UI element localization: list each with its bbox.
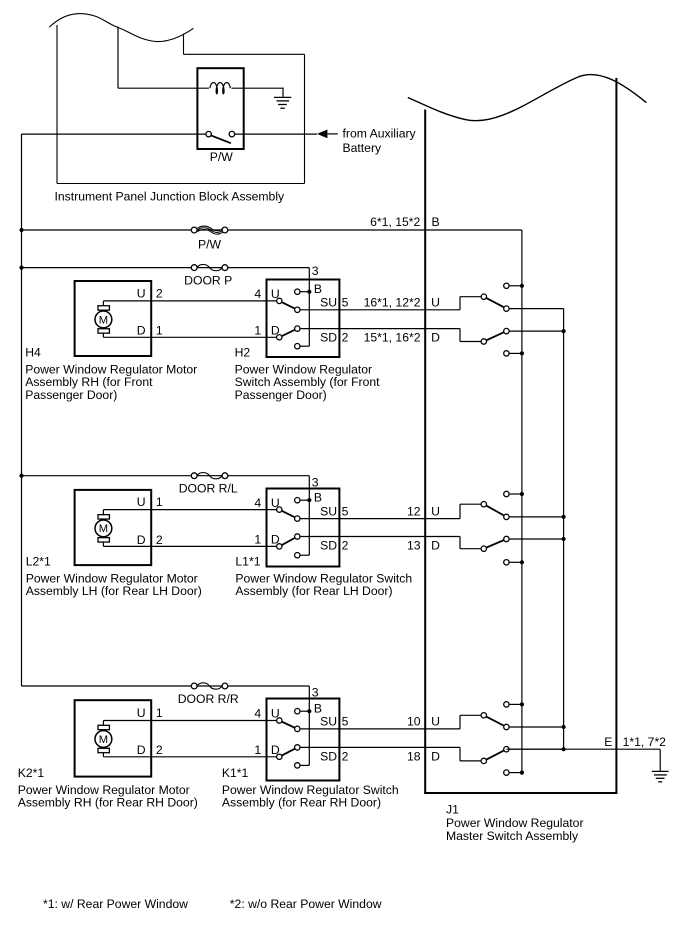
svg-text:U: U <box>271 287 280 301</box>
svg-text:U: U <box>137 495 146 509</box>
svg-text:M: M <box>99 523 108 535</box>
svg-text:1: 1 <box>254 324 261 338</box>
svg-text:D: D <box>271 533 280 547</box>
svg-text:D: D <box>271 743 280 757</box>
svg-text:6*1, 15*2: 6*1, 15*2 <box>370 215 420 229</box>
svg-text:D: D <box>431 331 440 345</box>
svg-text:D: D <box>137 324 146 338</box>
svg-text:5: 5 <box>342 296 349 310</box>
svg-text:Master Switch Assembly: Master Switch Assembly <box>446 829 579 843</box>
svg-text:4: 4 <box>254 287 261 301</box>
svg-text:2: 2 <box>342 539 349 553</box>
svg-text:1*1, 7*2: 1*1, 7*2 <box>623 735 667 749</box>
svg-text:K2*1: K2*1 <box>18 766 45 780</box>
svg-text:H2: H2 <box>235 346 251 360</box>
svg-text:U: U <box>271 707 280 721</box>
svg-text:H4: H4 <box>25 346 41 360</box>
svg-text:U: U <box>137 706 146 720</box>
svg-text:10: 10 <box>407 715 421 729</box>
svg-text:U: U <box>431 296 440 310</box>
svg-text:U: U <box>431 504 440 518</box>
svg-text:3: 3 <box>312 476 319 490</box>
svg-text:*1: w/ Rear Power Window: *1: w/ Rear Power Window <box>43 897 188 911</box>
svg-text:13: 13 <box>407 539 421 553</box>
svg-text:2: 2 <box>342 331 349 345</box>
svg-text:Passenger Door): Passenger Door) <box>25 388 117 402</box>
svg-text:from Auxiliary: from Auxiliary <box>343 126 417 140</box>
svg-text:U: U <box>271 496 280 510</box>
svg-text:B: B <box>314 491 322 505</box>
svg-text:DOOR R/L: DOOR R/L <box>179 482 238 496</box>
svg-text:1: 1 <box>254 743 261 757</box>
svg-text:2: 2 <box>342 750 349 764</box>
svg-text:M: M <box>99 314 108 326</box>
svg-text:DOOR R/R: DOOR R/R <box>178 692 239 706</box>
svg-text:SU: SU <box>320 715 337 729</box>
svg-text:U: U <box>137 287 146 301</box>
svg-text:SU: SU <box>320 504 337 518</box>
svg-text:D: D <box>271 324 280 338</box>
svg-text:U: U <box>431 715 440 729</box>
svg-text:Passenger Door): Passenger Door) <box>235 388 327 402</box>
svg-text:16*1, 12*2: 16*1, 12*2 <box>364 296 421 310</box>
svg-text:3: 3 <box>312 264 319 278</box>
svg-text:B: B <box>314 282 322 296</box>
svg-text:4: 4 <box>254 707 261 721</box>
svg-text:4: 4 <box>254 496 261 510</box>
svg-text:15*1, 16*2: 15*1, 16*2 <box>364 331 421 345</box>
svg-text:5: 5 <box>342 715 349 729</box>
svg-text:1: 1 <box>156 495 163 509</box>
svg-text:Assembly (for Rear RH Door): Assembly (for Rear RH Door) <box>222 796 381 810</box>
svg-text:12: 12 <box>407 504 421 518</box>
svg-text:2: 2 <box>156 287 163 301</box>
svg-text:B: B <box>314 702 322 716</box>
svg-text:5: 5 <box>342 504 349 518</box>
svg-text:SU: SU <box>320 296 337 310</box>
svg-text:P/W: P/W <box>210 150 234 164</box>
svg-text:1: 1 <box>156 706 163 720</box>
svg-text:P/W: P/W <box>198 237 222 251</box>
svg-text:D: D <box>137 743 146 757</box>
svg-text:Instrument Panel Junction Bloc: Instrument Panel Junction Block Assembly <box>55 190 286 204</box>
svg-text:K1*1: K1*1 <box>222 766 249 780</box>
svg-text:Assembly (for Rear LH Door): Assembly (for Rear LH Door) <box>235 584 392 598</box>
svg-text:2: 2 <box>156 743 163 757</box>
svg-text:2: 2 <box>156 533 163 547</box>
svg-text:E: E <box>604 735 612 749</box>
svg-text:J1: J1 <box>446 802 459 816</box>
svg-text:L2*1: L2*1 <box>26 555 51 569</box>
svg-text:M: M <box>99 734 108 746</box>
svg-text:1: 1 <box>254 533 261 547</box>
svg-text:B: B <box>432 215 440 229</box>
svg-text:SD: SD <box>320 750 337 764</box>
svg-text:SD: SD <box>320 539 337 553</box>
svg-text:18: 18 <box>407 750 421 764</box>
svg-text:1: 1 <box>156 324 163 338</box>
svg-text:Assembly RH (for Rear RH Door): Assembly RH (for Rear RH Door) <box>18 796 198 810</box>
svg-text:DOOR P: DOOR P <box>184 274 232 288</box>
svg-text:Battery: Battery <box>343 141 383 155</box>
svg-text:D: D <box>431 539 440 553</box>
svg-text:Assembly LH (for Rear LH Door): Assembly LH (for Rear LH Door) <box>26 584 202 598</box>
svg-text:L1*1: L1*1 <box>235 555 260 569</box>
svg-text:*2: w/o Rear Power Window: *2: w/o Rear Power Window <box>230 897 382 911</box>
svg-text:D: D <box>431 750 440 764</box>
svg-text:D: D <box>137 533 146 547</box>
svg-text:SD: SD <box>320 331 337 345</box>
